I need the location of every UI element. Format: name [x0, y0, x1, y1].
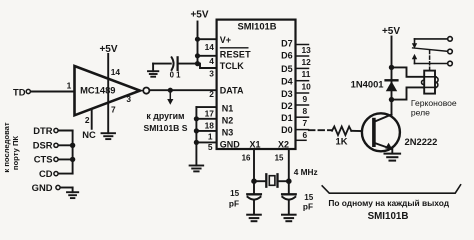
svg-text:14: 14 — [111, 67, 121, 77]
svg-text:SMI101B S: SMI101B S — [144, 123, 188, 133]
svg-text:6: 6 — [303, 130, 308, 140]
svg-text:4: 4 — [209, 56, 214, 66]
svg-text:DSR: DSR — [33, 140, 53, 151]
svg-text:3: 3 — [209, 69, 214, 79]
svg-text:N1: N1 — [222, 104, 234, 114]
svg-text:1: 1 — [208, 132, 213, 142]
svg-text:TCLK: TCLK — [220, 61, 244, 71]
svg-text:N3: N3 — [222, 128, 234, 138]
svg-text:DTR: DTR — [33, 125, 52, 136]
svg-text:2: 2 — [209, 89, 214, 99]
svg-text:По одному на каждый выход: По одному на каждый выход — [328, 198, 449, 208]
svg-text:1: 1 — [67, 81, 72, 91]
svg-text:15: 15 — [275, 153, 284, 162]
svg-text:+5V: +5V — [99, 44, 117, 55]
svg-text:2N2222: 2N2222 — [405, 136, 438, 147]
svg-text:D5: D5 — [281, 64, 293, 74]
svg-text:1K: 1K — [336, 136, 348, 147]
svg-text:к последоват: к последоват — [2, 122, 11, 172]
svg-text:X1: X1 — [249, 140, 260, 150]
svg-text:GND: GND — [32, 182, 53, 193]
svg-text:D7: D7 — [281, 39, 293, 49]
svg-text:DATA: DATA — [220, 86, 244, 96]
svg-text:15: 15 — [230, 189, 240, 198]
svg-text:SMI101B: SMI101B — [237, 20, 276, 31]
svg-text:17: 17 — [205, 108, 215, 118]
svg-text:12: 12 — [302, 57, 312, 67]
svg-text:7: 7 — [111, 104, 116, 114]
svg-text:CTS: CTS — [34, 154, 53, 165]
svg-text:5: 5 — [208, 142, 213, 152]
svg-text:D3: D3 — [281, 89, 293, 99]
svg-text:D4: D4 — [281, 76, 293, 86]
svg-text:4 MHz: 4 MHz — [294, 167, 318, 177]
svg-text:GND: GND — [220, 140, 241, 150]
svg-text:SMI101B: SMI101B — [368, 211, 409, 222]
svg-text:CD: CD — [39, 168, 53, 179]
svg-text:X2: X2 — [278, 140, 289, 150]
svg-text:3: 3 — [126, 94, 131, 104]
svg-text:V+: V+ — [220, 35, 231, 45]
svg-text:14: 14 — [205, 42, 215, 52]
svg-text:pF: pF — [303, 201, 313, 211]
svg-text:N2: N2 — [222, 116, 234, 126]
svg-text:реле: реле — [411, 108, 430, 118]
svg-text:D0: D0 — [281, 125, 293, 135]
svg-text:+5V: +5V — [382, 26, 400, 37]
svg-text:8: 8 — [303, 106, 308, 116]
svg-text:D2: D2 — [281, 101, 293, 111]
svg-text:1N4001: 1N4001 — [351, 78, 384, 89]
svg-text:pF: pF — [229, 198, 239, 208]
svg-text:11: 11 — [302, 69, 311, 79]
svg-text:10: 10 — [302, 81, 312, 91]
svg-text:RESET: RESET — [220, 50, 251, 60]
svg-text:7: 7 — [303, 118, 308, 128]
svg-text:порту ПК: порту ПК — [11, 136, 20, 170]
svg-text:к другим: к другим — [146, 111, 184, 121]
svg-text:NC: NC — [82, 129, 96, 140]
svg-text:+5V: +5V — [190, 10, 208, 21]
svg-text:D1: D1 — [281, 113, 293, 123]
svg-text:16: 16 — [242, 153, 251, 162]
svg-text:18: 18 — [205, 121, 215, 131]
svg-text:TD: TD — [13, 86, 26, 97]
svg-text:9: 9 — [303, 94, 308, 104]
svg-text:D6: D6 — [281, 51, 293, 61]
svg-text:13: 13 — [302, 45, 312, 55]
svg-text:MC1489: MC1489 — [80, 84, 115, 95]
svg-text:2: 2 — [85, 115, 90, 125]
svg-text:0 1: 0 1 — [170, 70, 182, 79]
